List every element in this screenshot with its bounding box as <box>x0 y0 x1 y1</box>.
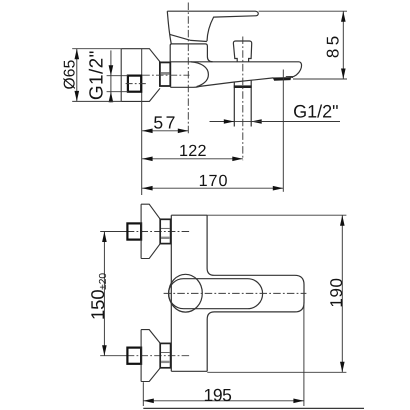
svg-text:G1/2": G1/2" <box>87 50 108 100</box>
handle pivot dome circle (front view) <box>169 274 203 312</box>
escutcheon joint / extension line for 57-122-170 dims <box>141 49 143 195</box>
svg-text:±20: ±20 <box>98 273 109 290</box>
svg-text:195: 195 <box>204 385 232 405</box>
square stub (thick) <box>127 348 141 364</box>
dimension Ø65 (vertical) <box>72 49 121 102</box>
svg-text:G1/2": G1/2" <box>293 102 338 122</box>
svg-text:150: 150 <box>87 289 108 320</box>
baseline under drawing <box>143 407 364 409</box>
svg-text:190: 190 <box>327 277 346 307</box>
body top edge + 190 top extension <box>171 214 207 216</box>
shower outlet stub (side view) <box>234 80 251 126</box>
extension + center line <box>100 355 127 357</box>
diverter knob (side view) <box>233 41 251 62</box>
dimension 150±20 (left, vertical) <box>103 232 105 356</box>
body barrel and spout top edge (side view) <box>170 61 299 63</box>
dimension 122 <box>142 158 243 160</box>
handle grip inner stadium (front view) <box>169 279 263 309</box>
dimension 190 (right, vertical) <box>341 215 343 372</box>
escutcheon <box>141 330 160 382</box>
body outline with handle (front view) <box>171 215 304 371</box>
center line: wall pipe axis <box>126 83 147 85</box>
svg-text:57: 57 <box>153 113 177 133</box>
svg-text:122: 122 <box>179 142 207 160</box>
extension + center line <box>100 231 127 233</box>
svg-text:170: 170 <box>199 172 229 190</box>
center line: diverter axis <box>242 37 244 161</box>
svg-text:85: 85 <box>324 32 343 58</box>
dimension 57 <box>142 130 188 132</box>
top wall connection (front view) <box>100 204 190 258</box>
hex nut <box>160 219 170 243</box>
hex union nut (side view) <box>160 62 170 86</box>
barrel bottom edge merging into spout underside (side view) <box>170 78 273 87</box>
dimension 195 (bottom) <box>143 302 304 406</box>
wall escutcheon (side view) <box>121 49 160 102</box>
escutcheon <box>141 204 160 258</box>
cartridge cap block (side view) <box>170 44 212 62</box>
spout aerator band (side view) <box>273 78 290 81</box>
barrel rounded end arc (side view) <box>191 62 209 87</box>
G1/2 wall pipe square (side view, thick) <box>128 76 141 92</box>
dimension 85 (right, vertical) <box>259 11 347 79</box>
hex nut <box>160 343 170 367</box>
extension line: spout tip <box>282 70 284 192</box>
dimension G1/2 (right, shower outlet) <box>210 121 235 123</box>
dimension G1/2 (left, vertical) <box>107 50 129 102</box>
center line: main vertical axis (side view) <box>187 3 189 136</box>
bottom wall connection (front view) <box>100 330 190 382</box>
square stub (thick) <box>127 223 141 239</box>
center line: faucet horizontal axis <box>142 74 189 76</box>
spout tip (side view) <box>290 62 301 78</box>
center line: handle axis (front view) <box>164 292 307 294</box>
190 bottom extension <box>207 371 346 373</box>
svg-text:Ø65: Ø65 <box>62 59 79 89</box>
handle lever (side view) <box>167 11 258 44</box>
dimension 170 <box>142 187 283 189</box>
